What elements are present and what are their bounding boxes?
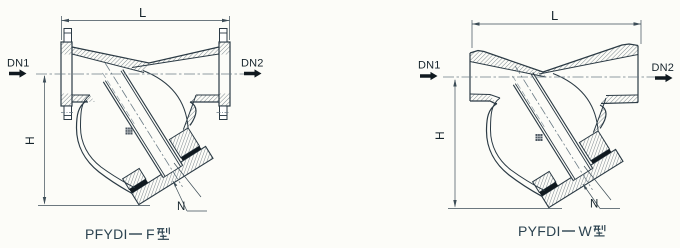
pipe centerline <box>36 73 252 75</box>
gasket (black strips) <box>539 149 611 196</box>
bottom cover plate (hatched section) <box>542 149 623 207</box>
label DN1 (right view) <box>418 60 441 72</box>
label N <box>590 199 598 211</box>
branch axis centerline <box>515 66 592 190</box>
svg-text:L: L <box>551 8 558 23</box>
leader line (cover) <box>584 166 611 200</box>
filter screen walls <box>103 70 182 178</box>
pipe wall section hatching <box>72 47 219 130</box>
outlet inner sweep curve <box>143 71 188 128</box>
dimension L (right view) <box>472 20 641 48</box>
bore inner lines <box>72 54 219 95</box>
strainer bowl flange (hatched section) <box>533 131 610 193</box>
label H (left view) <box>23 136 37 145</box>
label N <box>177 201 185 213</box>
pipe centerline <box>443 76 656 78</box>
gasket (black strips) <box>129 146 201 193</box>
auxiliary dashed line <box>103 73 135 125</box>
weld-end body outer profile <box>470 44 638 104</box>
flange studs and nuts <box>61 29 230 120</box>
svg-text:DN1: DN1 <box>7 58 30 70</box>
label H (right view) <box>433 131 447 140</box>
flow arrow DN2 (left view) <box>244 69 262 77</box>
dimension H (right view) <box>448 79 562 209</box>
valve body outer profile <box>72 47 219 102</box>
filter screen tube interior <box>563 152 593 181</box>
svg-text:PFYDI: PFYDI <box>85 226 128 242</box>
bore inner lines <box>470 55 638 99</box>
outlet flange <box>219 42 230 106</box>
filter screen walls <box>513 73 592 181</box>
label L (right view) <box>551 8 558 23</box>
dimension H (left view) <box>38 75 150 206</box>
outlet inner sweep curve <box>553 74 598 131</box>
filter screen tube interior <box>153 149 183 178</box>
strainer bowl flange (hatched section) <box>123 128 200 189</box>
caption PFYDI-F (left view) <box>85 226 169 242</box>
flow arrow DN1 (left view) <box>9 69 27 77</box>
flow arrow DN2 (right view) <box>655 74 673 82</box>
outlet fillet walls <box>593 98 606 133</box>
flow arrow DN1 (right view) <box>420 72 438 80</box>
svg-text:PYFDI: PYFDI <box>518 223 561 239</box>
pipe wall section hatching <box>470 44 638 133</box>
screen mesh symbol <box>126 128 133 135</box>
label DN2 (right view) <box>652 62 675 74</box>
svg-text:L: L <box>139 5 146 20</box>
label DN2 (left view) <box>241 58 264 70</box>
dimension L (left view) <box>62 16 230 40</box>
branch axis centerline <box>105 63 182 187</box>
strainer bowl wall <box>487 98 545 196</box>
auxiliary dashed line <box>513 76 545 128</box>
strainer bowl wall <box>77 95 135 193</box>
outlet fillet walls <box>183 95 196 130</box>
svg-text:H: H <box>433 131 447 140</box>
inlet flange <box>61 42 72 106</box>
svg-text:DN2: DN2 <box>652 62 675 74</box>
caption PYFDI-W (right view) <box>518 223 605 239</box>
bottom cover plate (hatched section) <box>132 146 213 204</box>
svg-text:DN1: DN1 <box>418 60 441 72</box>
screen mesh symbol <box>536 134 543 141</box>
svg-text:H: H <box>23 136 37 145</box>
label DN1 (left view) <box>7 58 30 70</box>
svg-text:DN2: DN2 <box>241 58 264 70</box>
svg-text:N: N <box>177 201 185 213</box>
svg-text:W: W <box>579 223 593 239</box>
svg-text:F: F <box>146 226 155 242</box>
leader line (cover) <box>174 163 201 197</box>
leader line N <box>583 184 620 209</box>
leader line N <box>173 181 207 211</box>
label L (left view) <box>139 5 146 20</box>
svg-text:N: N <box>590 199 598 211</box>
